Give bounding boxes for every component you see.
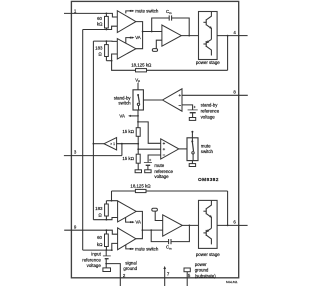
svg-text:VA: VA: [135, 220, 141, 225]
wire feedback node to R3: [112, 61, 136, 71]
svg-text:183: 183: [95, 206, 103, 211]
resistor R7 183 Ohm: [105, 201, 107, 204]
svg-text:VP: VP: [135, 78, 140, 84]
svg-text:voltage: voltage: [87, 263, 102, 268]
svg-text:60: 60: [97, 16, 102, 21]
ground mute switch: [192, 154, 194, 161]
wire standby switch output: [143, 99, 162, 101]
svg-text:18,125 kΩ: 18,125 kΩ: [130, 184, 150, 189]
pin 7: [164, 268, 166, 286]
resistor R4 15 kOhm: [136, 128, 140, 137]
svg-text:power: power: [195, 262, 207, 267]
op-amp A1: [117, 11, 136, 33]
svg-text:kΩ: kΩ: [97, 22, 103, 27]
wire pin9 input: [64, 230, 117, 234]
power stage box top: [199, 12, 218, 60]
node buffer line: [137, 143, 139, 145]
pins: [64, 9, 248, 286]
wire A2 output: [136, 32, 143, 49]
wire feedback to A4 inverting input: [112, 191, 118, 201]
wire mute tap bottom: [126, 245, 130, 249]
wire A1 output: [136, 22, 143, 32]
battery stand-by reference voltage: [194, 106, 196, 108]
svg-text:Ω: Ω: [98, 52, 101, 57]
wire U3 output: [179, 148, 187, 150]
svg-text:ground: ground: [195, 268, 209, 273]
resistor R5 15 kOhm: [136, 154, 140, 163]
svg-text:kΩ: kΩ: [97, 242, 103, 247]
stand-by switch S1: [133, 90, 143, 110]
wire A5 output: [136, 230, 143, 239]
wire to power amp bottom: [142, 229, 162, 231]
wire to pin2: [106, 264, 120, 286]
wire mute switch tap: [126, 11, 130, 14]
ground standby ref: [189, 118, 195, 121]
svg-text:input: input: [91, 252, 101, 257]
op-amp A5 mute: [118, 228, 136, 250]
svg-text:15 kΩ: 15 kΩ: [122, 129, 134, 134]
wire 183 input line: [93, 40, 117, 42]
wire VA tap bottom: [126, 217, 131, 222]
svg-text:reference: reference: [201, 108, 220, 113]
svg-text:MGL611: MGL611: [226, 280, 238, 284]
svg-text:OM8382: OM8382: [198, 177, 219, 183]
wire standby chain down: [138, 105, 140, 110]
wire U3 mid input: [138, 148, 161, 150]
svg-text:Cm: Cm: [166, 245, 172, 251]
offset source E1: [152, 49, 157, 52]
pin 6: [239, 224, 248, 226]
comparator U2 stand-by: [163, 89, 183, 111]
svg-text:15 kΩ: 15 kΩ: [122, 156, 134, 161]
svg-text:power stage: power stage: [196, 252, 220, 257]
wire buffer output to net B: [93, 143, 104, 145]
buffer U1 x1: [104, 138, 117, 150]
svg-text:mute switch: mute switch: [135, 246, 159, 251]
wire feedback riser from pin6: [227, 191, 229, 225]
wire pin1 input: [64, 13, 117, 17]
mute switch S2: [187, 138, 198, 161]
resistor R8 60 kOhm: [105, 230, 107, 234]
capacitor C1 Cm: [152, 18, 170, 32]
wire U2 minus input: [182, 105, 193, 110]
power op-amp A3: [162, 25, 181, 46]
svg-text:VA: VA: [119, 114, 125, 119]
svg-text:× 1: × 1: [110, 142, 115, 146]
wire feedback to inverting input of A1: [83, 26, 118, 29]
ground R5: [135, 170, 141, 173]
svg-text:voltage: voltage: [201, 114, 216, 119]
node 60k top: [106, 13, 108, 15]
wire VA tap: [126, 38, 130, 44]
transistor Q4: [205, 230, 207, 236]
ground mute ref: [145, 170, 151, 173]
wire A6 out: [182, 224, 198, 226]
node mute control stub: [191, 132, 193, 141]
wire feedback riser to pin4: [227, 36, 229, 71]
svg-text:switch: switch: [118, 101, 131, 106]
svg-text:ground: ground: [123, 266, 137, 271]
pin 3: [64, 155, 122, 157]
wire A3 out to power stage: [181, 35, 198, 37]
svg-text:reference: reference: [82, 258, 101, 263]
svg-text:stand-by: stand-by: [201, 102, 219, 107]
svg-text:reference: reference: [154, 169, 173, 174]
middle standby/mute: [93, 78, 248, 180]
battery input reference voltage: [105, 250, 107, 256]
wire power stage out to pin6: [217, 224, 239, 226]
svg-text:mute: mute: [201, 143, 211, 148]
svg-text:183: 183: [95, 45, 103, 50]
power stage box bottom: [199, 200, 218, 248]
top channel: [64, 8, 239, 250]
transistor Q2: [205, 41, 207, 47]
svg-text:60: 60: [97, 235, 102, 240]
wire long left net B: [92, 41, 94, 220]
op-amp A4 VA: [118, 201, 137, 222]
svg-text:power stage: power stage: [196, 60, 220, 65]
resistor R2 183 Ohm: [105, 41, 107, 45]
svg-text:switch: switch: [201, 149, 214, 154]
IC outer box OM8382: [71, 1, 238, 284]
op-amp A2: [117, 39, 136, 59]
wire U3 minus input: [148, 155, 161, 162]
svg-text:18,125 kΩ: 18,125 kΩ: [131, 63, 151, 68]
svg-text:Ω: Ω: [98, 212, 101, 217]
pin 5 power ground: [186, 272, 188, 286]
wire 183 line bottom: [93, 218, 117, 220]
offset source E2: [152, 208, 158, 211]
node VA tap: [137, 115, 139, 117]
wire long left net A: [82, 30, 84, 251]
svg-text:signal: signal: [125, 261, 136, 266]
svg-text:VA: VA: [135, 35, 141, 40]
node branch to comparator: [137, 121, 139, 123]
wire pin 8 line: [182, 94, 248, 96]
svg-text:(substrate): (substrate): [195, 273, 217, 278]
transistor Q1: [205, 19, 207, 25]
wire buffer input: [117, 143, 139, 145]
pin 4: [239, 35, 248, 37]
wire power stage out to pin 4: [217, 35, 239, 37]
resistor R1 60 kOhm: [105, 13, 107, 16]
power op-amp A6: [163, 215, 183, 236]
svg-text:mute: mute: [154, 163, 164, 168]
svg-text:mute switch: mute switch: [135, 8, 159, 13]
transistor Q3: [205, 208, 207, 214]
capacitor C2 Cm: [151, 230, 168, 242]
node 60k bottom: [106, 29, 108, 31]
wire pin3 riser: [121, 144, 123, 156]
wire inverting input A2: [112, 54, 118, 61]
wire A4 output: [136, 211, 142, 230]
wire feedback bottom: [83, 243, 118, 250]
battery mute reference voltage: [149, 159, 151, 161]
wire to power amp: [143, 31, 162, 33]
svg-text:Cm: Cm: [166, 9, 172, 15]
bottom channel: [64, 184, 239, 286]
node comparator mid input: [137, 148, 139, 150]
comparator U3 mute: [161, 139, 179, 159]
terminal input ref: [103, 268, 111, 272]
svg-text:voltage: voltage: [154, 174, 169, 179]
